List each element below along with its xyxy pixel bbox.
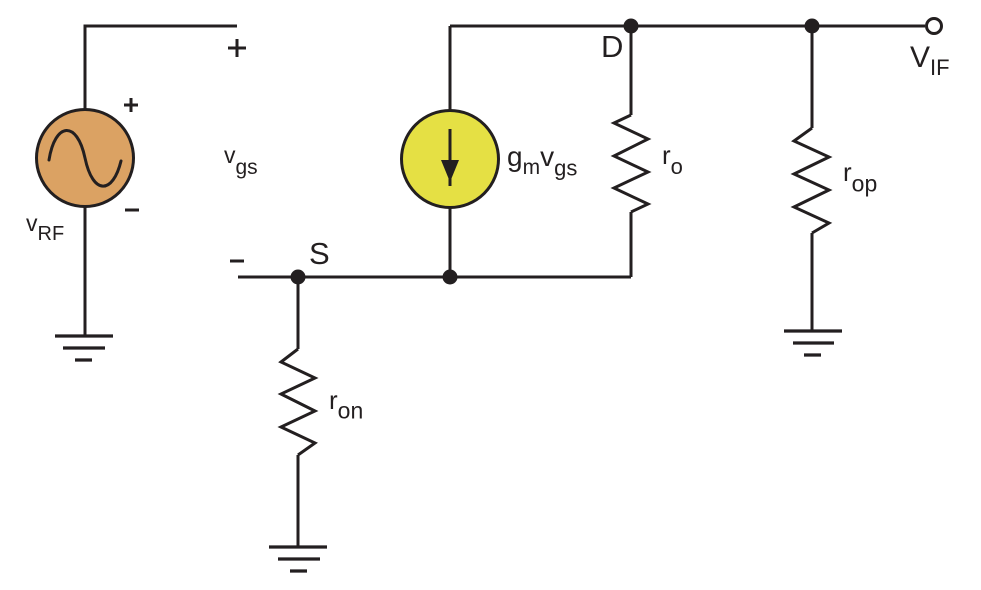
node S	[291, 270, 306, 285]
svg-text:ron: ron	[329, 385, 363, 424]
ground at source	[55, 336, 113, 360]
svg-text:VIF: VIF	[910, 41, 950, 80]
svg-text:D: D	[601, 29, 623, 64]
wire current source top	[449, 26, 452, 110]
wire r_on to ground	[297, 455, 300, 547]
ground at r_on	[269, 547, 327, 571]
sine wave inside source	[49, 130, 121, 186]
minus at vgs bottom	[230, 260, 244, 263]
wire node D to r_o	[630, 26, 633, 115]
resistor r_on	[281, 349, 315, 455]
svg-text:rop: rop	[843, 157, 877, 197]
svg-text:ro: ro	[662, 140, 683, 179]
node at current source bottom	[443, 270, 458, 285]
wire top node to r_op	[811, 26, 814, 128]
terminal VIF open circle	[927, 19, 942, 34]
resistor r_op	[794, 128, 829, 233]
wire r_o to S wire	[630, 212, 633, 277]
wire r_op to ground	[811, 233, 814, 331]
svg-text:gmvgs: gmvgs	[507, 141, 577, 181]
minus at source	[125, 209, 139, 212]
current source arrow shaft	[449, 129, 452, 186]
wire top-left from source to vgs plus	[85, 26, 237, 110]
wire top rail	[450, 25, 925, 28]
node D	[624, 19, 639, 34]
wire S node to r_on	[297, 277, 300, 349]
svg-text:vgs: vgs	[224, 142, 258, 179]
wire source bottom to ground	[84, 206, 87, 336]
wire current source bottom	[449, 208, 452, 277]
plus at source	[124, 98, 138, 112]
svg-text:S: S	[309, 236, 330, 271]
node at r_op top	[805, 19, 820, 34]
AC source vRF	[37, 110, 134, 207]
current source gm vgs	[402, 111, 499, 208]
current source arrow head	[441, 160, 459, 182]
plus at vgs top	[228, 39, 246, 57]
ground at r_op	[784, 331, 842, 355]
resistor r_o	[614, 115, 648, 212]
svg-text:vRF: vRF	[26, 210, 64, 245]
wire S horizontal	[238, 276, 631, 279]
